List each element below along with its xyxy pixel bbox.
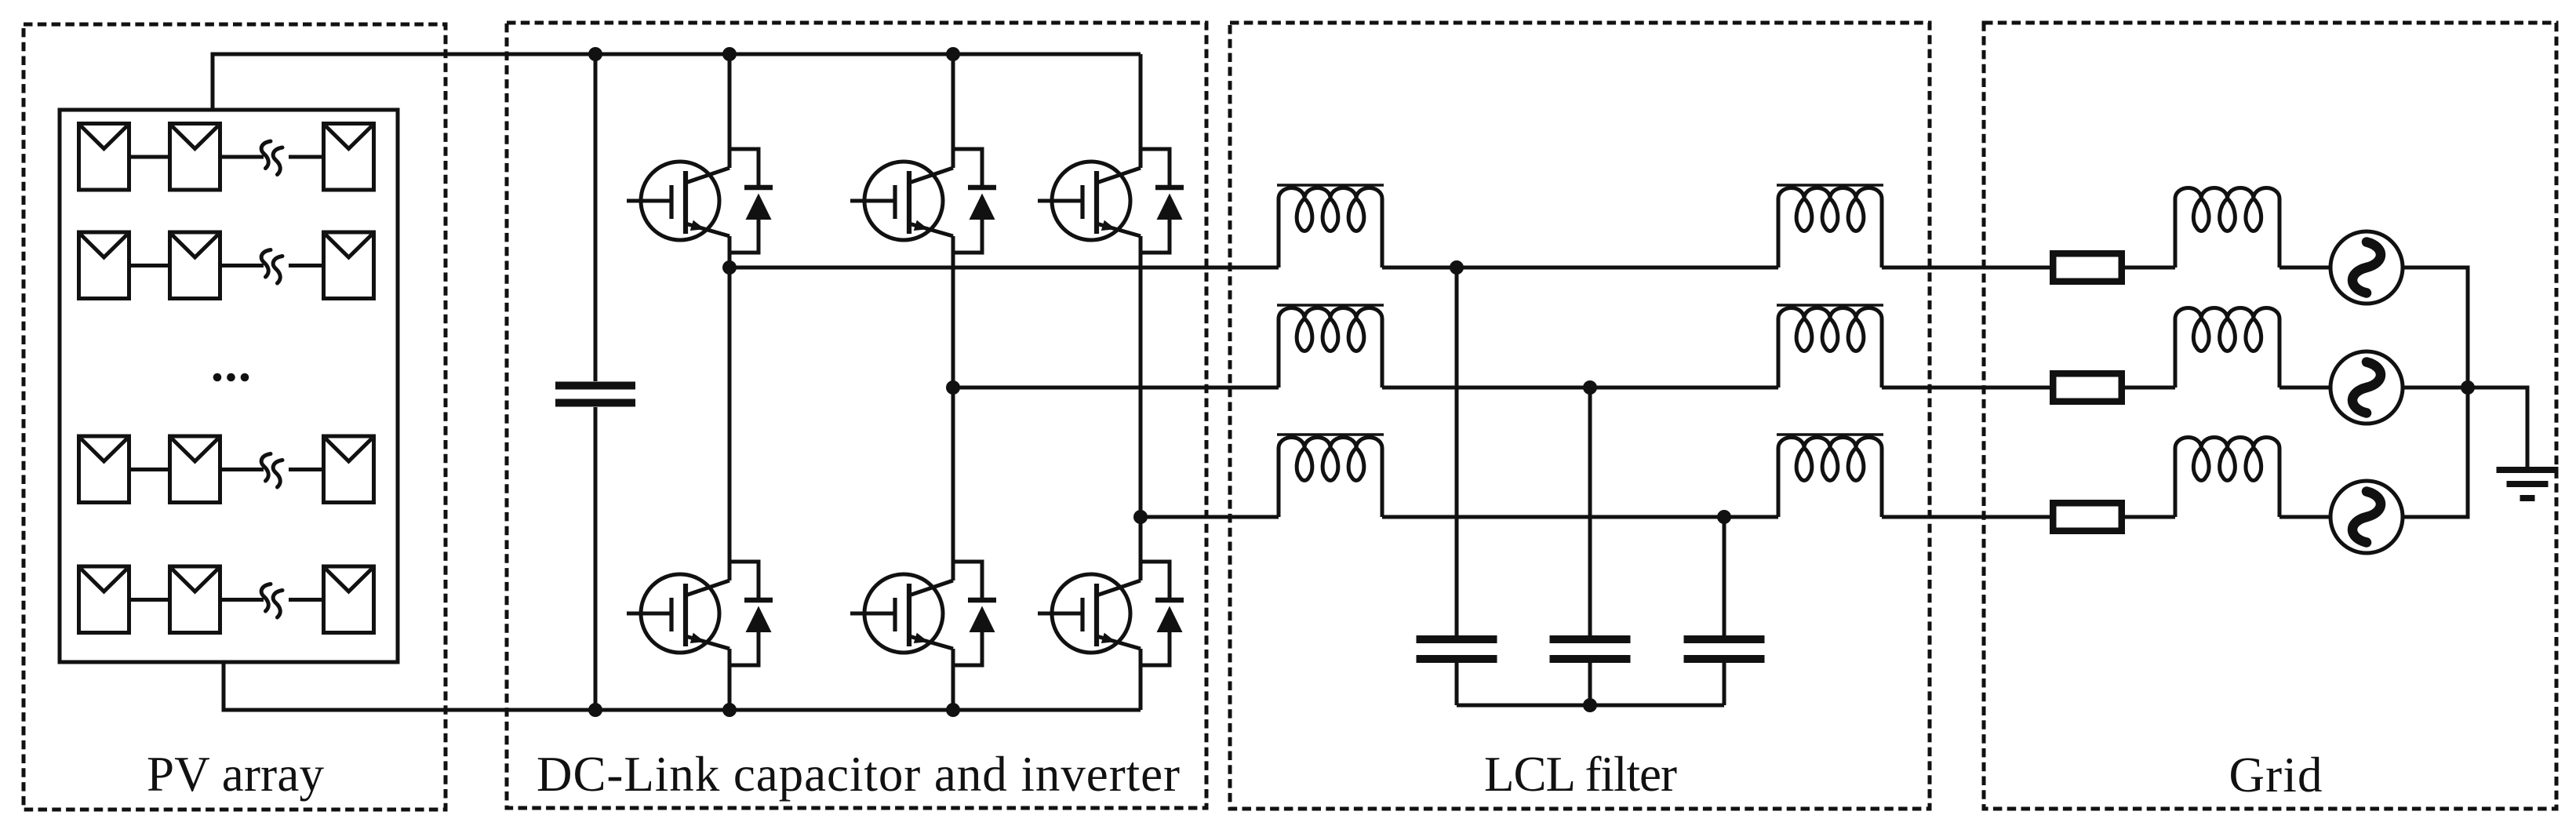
wire: phase A L1 to L2: [1382, 266, 1778, 270]
wire: row2 module1-module2: [129, 264, 170, 267]
PV module row4 col2: [170, 566, 220, 633]
wire: phase C inverter to L1: [1141, 515, 1279, 519]
transistor Q2 (upper IGBT leg B) with freewheel diode: [850, 149, 996, 253]
wire: shunt branch phase B upper: [1588, 388, 1592, 635]
Grid section dashed box: [1984, 23, 2556, 809]
PV module row3 col2: [170, 436, 220, 503]
junction: phase C output node: [1133, 510, 1148, 524]
junction: DC+ rail leg A: [722, 47, 737, 61]
wire: phase B inverter to L1: [953, 386, 1279, 390]
wire: phase B L2 to grid resistor: [1882, 386, 2050, 390]
junction: phase B shunt tap: [1583, 380, 1597, 395]
inductor L1 phase A (inverter side): [1279, 188, 1382, 267]
wire: row3 module2-break: [220, 468, 264, 471]
wire: neutral to ground: [2468, 388, 2527, 467]
inductor L1 phase B (inverter side): [1279, 308, 1382, 388]
PV array outline box: [60, 110, 398, 662]
DC-Link section dashed box: [507, 23, 1206, 808]
wire: DC-link capacitor bottom lead: [594, 407, 598, 710]
ground: [2497, 470, 2559, 498]
inductor Lg phase A (grid): [2175, 187, 2279, 267]
PV module row1 col1: [79, 124, 129, 191]
svg-text:PV array: PV array: [147, 747, 325, 802]
PV module row2 col3: [324, 232, 374, 299]
wire: row1 module2-break: [220, 155, 264, 159]
junction: grid neutral node: [2461, 380, 2475, 395]
inductor L2 phase B (grid side): [1778, 308, 1882, 388]
wire: phase B L1 to L2: [1382, 386, 1778, 390]
wire: phase B resistor to Lg: [2125, 386, 2175, 390]
junction: phase A shunt tap: [1450, 260, 1464, 275]
wire break squiggle row2: [261, 250, 282, 284]
PV module row3 col1: [79, 436, 129, 503]
junction: DC- rail leg A: [722, 703, 737, 717]
wire: leg C upper collector: [1139, 54, 1143, 168]
junction: capacitor bus neutral: [1583, 698, 1597, 712]
resistor Rg phase C: [2053, 503, 2122, 531]
PV module row4 col3: [324, 566, 374, 633]
PV module row1 col2: [170, 124, 220, 191]
junction: DC- rail / capacitor: [588, 703, 602, 717]
wire break squiggle row1: [261, 141, 282, 175]
LCL filter section dashed box: [1230, 23, 1930, 809]
wire: shunt branch phase C upper: [1723, 517, 1726, 635]
junction: DC- rail leg B: [946, 703, 960, 717]
junction: phase B output node: [946, 380, 960, 395]
wire: phase C L1 to L2: [1382, 515, 1778, 519]
svg-text:LCL filter: LCL filter: [1484, 747, 1677, 802]
PV module row3 col3: [324, 436, 374, 503]
wire: row4 module2-break: [220, 598, 264, 602]
wire: shunt branch phase A lower: [1455, 663, 1459, 705]
wire: row4 module1-module2: [129, 598, 170, 602]
wire: row1 module1-module2: [129, 155, 170, 159]
capacitor Cf phase A: [1417, 639, 1497, 659]
PV module row2 col2: [170, 232, 220, 299]
wire: source B to neutral: [2403, 386, 2468, 390]
wire: PV negative output (box bottom to DC- rail): [224, 662, 1141, 710]
transistor Q4 (lower IGBT leg A) with freewheel diode: [627, 562, 773, 665]
transistor Q3 (upper IGBT leg C) with freewheel diode: [1038, 149, 1184, 253]
ellipsis dots (more rows): [213, 373, 249, 382]
wire break squiggle row4: [261, 584, 282, 618]
wire: leg A lower emitter: [728, 649, 732, 710]
inductor L2 phase C (grid side): [1778, 438, 1882, 518]
wire: leg C lower emitter: [1139, 649, 1143, 710]
wire: leg B midpoint: [951, 236, 955, 580]
wire: row2 break-module3: [289, 264, 324, 267]
wire: phase B Lg to source: [2279, 386, 2330, 390]
transistor Q5 (lower IGBT leg B) with freewheel diode: [850, 562, 996, 665]
PV module row4 col1: [79, 566, 129, 633]
wire: phase A Lg to source: [2279, 266, 2330, 270]
junction: DC+ rail leg B: [946, 47, 960, 61]
wire: shunt branch phase C lower: [1723, 663, 1726, 705]
inductor L2 phase A (grid side): [1778, 188, 1882, 267]
wire: DC-link capacitor top lead: [594, 54, 598, 381]
wire: row1 break-module3: [289, 155, 324, 159]
wire: leg C midpoint: [1139, 236, 1143, 580]
junction: DC+ rail / capacitor: [588, 47, 602, 61]
wire: shunt branch phase A upper: [1455, 267, 1459, 635]
wire: phase C L2 to grid resistor: [1882, 515, 2050, 519]
PV array section dashed box: [24, 24, 446, 810]
wire: phase C Lg to source: [2279, 515, 2330, 519]
PV module row2 col1: [79, 232, 129, 299]
wire: phase C resistor to Lg: [2125, 515, 2175, 519]
wire: phase A L2 to grid resistor: [1882, 266, 2050, 270]
capacitor Cf phase C: [1684, 639, 1765, 659]
wire: row4 break-module3: [289, 598, 324, 602]
inductor Lg phase B (grid): [2175, 308, 2279, 388]
inductor Lg phase C (grid): [2175, 437, 2279, 517]
inductor L1 phase C (inverter side): [1279, 438, 1382, 518]
wire: source A to neutral: [2403, 267, 2468, 388]
wire: leg B upper collector: [951, 54, 955, 168]
DC-link capacitor: [555, 386, 635, 403]
wire break squiggle row3: [261, 454, 282, 488]
svg-text:Grid: Grid: [2229, 748, 2323, 802]
wire: leg A upper collector: [728, 54, 732, 168]
wire: PV positive output (box top to DC+ rail): [213, 54, 1141, 110]
wire: row3 break-module3: [289, 468, 324, 471]
transistor Q6 (lower IGBT leg C) with freewheel diode: [1038, 562, 1184, 665]
PV module row1 col3: [324, 124, 374, 191]
AC source phase A: [2330, 231, 2403, 304]
junction: phase A output node: [722, 260, 737, 275]
AC source phase C: [2330, 481, 2403, 553]
transistor Q1 (upper IGBT leg A) with freewheel diode: [627, 149, 773, 253]
wire: leg B lower emitter: [951, 649, 955, 710]
wire: capacitor common bus: [1457, 704, 1724, 708]
capacitor Cf phase B: [1550, 639, 1631, 659]
junction: phase C shunt tap: [1717, 510, 1731, 524]
AC source phase B: [2330, 351, 2403, 424]
wire: shunt branch phase B lower: [1588, 663, 1592, 705]
wire: row2 module2-break: [220, 264, 264, 267]
wire: row3 module1-module2: [129, 468, 170, 471]
wire: source C to neutral: [2403, 388, 2468, 517]
wire: phase A inverter to L1: [730, 266, 1279, 270]
wire: phase A resistor to Lg: [2125, 266, 2175, 270]
resistor Rg phase B: [2053, 373, 2122, 402]
resistor Rg phase A: [2053, 253, 2122, 282]
wire: leg A midpoint: [728, 236, 732, 580]
svg-text:DC-Link capacitor and inverter: DC-Link capacitor and inverter: [537, 747, 1180, 802]
